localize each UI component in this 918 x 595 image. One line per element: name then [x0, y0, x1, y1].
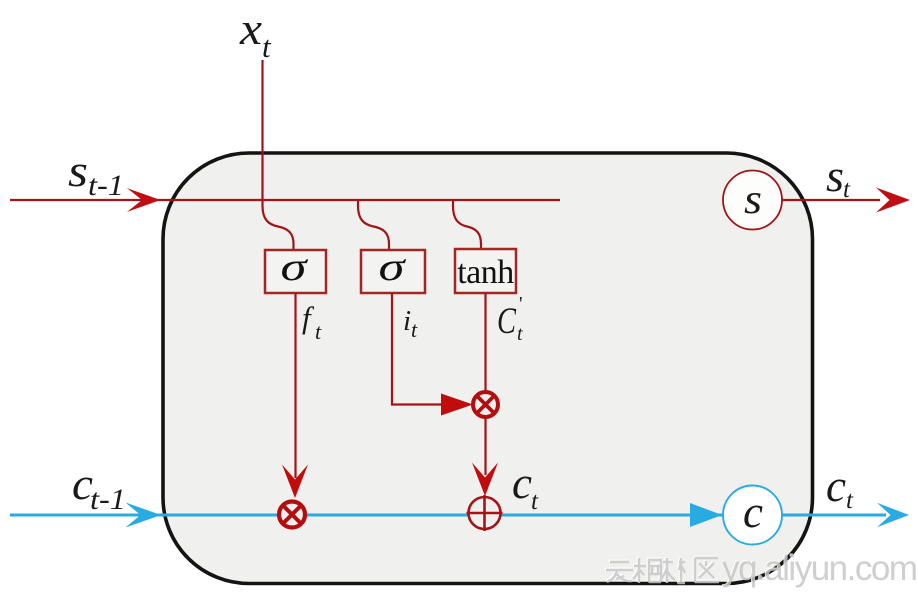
wire s output — [782, 199, 880, 201]
wire multiply to plus — [484, 417, 486, 475]
svg-text:x: x — [239, 4, 262, 54]
arrowhead into plus — [472, 463, 498, 497]
svg-text:t: t — [843, 176, 851, 203]
node multiply f*c — [279, 502, 305, 528]
node plus sum — [467, 495, 503, 531]
svg-text:t: t — [517, 323, 523, 345]
LSTM cell body — [163, 153, 813, 584]
svg-text:C: C — [497, 301, 517, 342]
sigma gate box f — [265, 250, 326, 293]
wire i gate elbow — [392, 293, 442, 405]
svg-text:t: t — [846, 487, 854, 514]
svg-text:s: s — [826, 151, 844, 201]
tanh gate box — [455, 249, 516, 293]
svg-text:σ: σ — [281, 244, 309, 289]
svg-text:σ: σ — [379, 244, 407, 289]
arrowhead c input — [126, 503, 162, 528]
watermark — [605, 548, 916, 588]
node c output circle — [723, 486, 782, 545]
svg-text:c: c — [512, 458, 532, 508]
svg-text:tanh: tanh — [457, 254, 514, 291]
arrowhead f down — [282, 465, 308, 499]
svg-text:c: c — [826, 461, 846, 511]
svg-text:t: t — [262, 29, 272, 64]
svg-text:yq.aliyun.com: yq.aliyun.com — [722, 549, 916, 588]
wire s_{t-1} horizontal input line — [10, 199, 560, 201]
wire c line horizontal — [10, 514, 886, 517]
svg-text:c: c — [743, 487, 763, 537]
wire pigtail to sigma i gate — [358, 200, 389, 250]
svg-text:t: t — [531, 488, 539, 515]
arrowhead i right triangle — [441, 394, 473, 416]
svg-text:': ' — [519, 293, 523, 315]
arrowhead s output — [876, 188, 910, 213]
wire pigtail to sigma f gate — [263, 200, 294, 250]
wire pigtail to tanh gate — [453, 200, 481, 250]
svg-text:i: i — [403, 305, 411, 337]
svg-text:t: t — [315, 319, 322, 344]
svg-text:t-1: t-1 — [88, 169, 124, 202]
svg-text:t-1: t-1 — [90, 483, 126, 516]
svg-text:s: s — [68, 146, 88, 196]
node s output circle — [723, 171, 782, 230]
wire x_t vertical input — [261, 60, 263, 200]
svg-text:t: t — [411, 317, 418, 342]
arrowhead s input — [127, 188, 161, 212]
arrowhead c mid triangle — [690, 503, 722, 527]
wire f gate down — [294, 293, 296, 478]
node multiply i*C' — [473, 392, 498, 417]
svg-text:s: s — [744, 177, 762, 223]
sigma gate box i — [361, 250, 425, 293]
wire tanh gate down — [484, 293, 486, 392]
arrowhead c output — [877, 503, 909, 528]
